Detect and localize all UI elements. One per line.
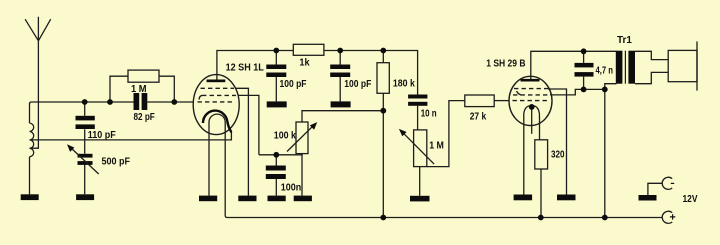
wire Tr1 secondary to speaker — [635, 51, 668, 83]
wire 1M wiper to 27k — [427, 101, 465, 167]
wire V2 filament right leg to 320 — [540, 117, 542, 218]
tube V1 12 SH 1L envelope — [193, 75, 239, 135]
resistor 320 — [535, 140, 548, 169]
ground bar V1 screen — [238, 196, 256, 202]
svg-text:320: 320 — [551, 149, 565, 161]
inductor L (tank coil) — [30, 104, 34, 195]
svg-text:180 k: 180 k — [393, 77, 415, 89]
svg-text:1 M: 1 M — [429, 140, 444, 152]
svg-text:27 k: 27 k — [470, 110, 487, 122]
ground bar 100n — [268, 196, 286, 202]
wire 100pF no.2 stubs — [339, 51, 341, 102]
wire coil tap to cathode V1 — [30, 132, 232, 140]
svg-text:1 SH 29 B: 1 SH 29 B — [486, 58, 526, 70]
wire V2 row1 to ground bar — [548, 89, 567, 195]
ground bar under 100 pF no.2 — [331, 101, 351, 107]
wire V2 row2 to screen node — [550, 89, 605, 95]
ground bar V1 heater — [199, 196, 217, 202]
svg-text:4,7 n: 4,7 n — [596, 65, 614, 77]
wire Tr1 primary bottom to +rail — [605, 84, 617, 218]
ground bar V2 filament — [514, 195, 533, 201]
ground bar under 100 pF no.1 — [267, 101, 287, 107]
tube V2 filament — [524, 106, 540, 118]
wire V1 anode riser and top rail — [217, 51, 418, 95]
svg-text:82 pF: 82 pF — [134, 111, 156, 123]
svg-text:100 pF: 100 pF — [280, 78, 307, 90]
wire 110pF column — [84, 102, 86, 194]
ground bar 1M pot — [410, 196, 430, 202]
ground bar 500 pF — [76, 194, 94, 200]
ground bar 100k pot — [294, 196, 312, 202]
tube V1 cathode — [203, 111, 231, 133]
wire 1M pot bottom to ground — [419, 167, 421, 196]
tube V1 heater — [209, 114, 225, 122]
wire antenna drop to coil tap — [30, 41, 39, 148]
svg-text:12V: 12V — [683, 193, 698, 205]
tube V2 1 SH 29 B envelope — [509, 76, 552, 125]
svg-text:500 pF: 500 pF — [102, 155, 131, 167]
resistor 180 k — [377, 63, 389, 94]
wire 10n to 1M pot — [417, 106, 419, 130]
resistor 27 k — [465, 95, 494, 107]
wire V1 screen to ground bar — [236, 88, 249, 195]
label plus — [670, 214, 675, 219]
capacitor 100 pF no.1 — [266, 65, 286, 78]
transformer Tr1 — [616, 51, 635, 84]
capacitor 4,7 n — [575, 63, 594, 77]
socket minus — [662, 177, 672, 189]
wire 100k pot top to 180k junction — [302, 111, 383, 122]
wire 100pF no.1 stubs — [275, 51, 277, 102]
resistor 1k — [293, 44, 324, 55]
svg-text:100 pF: 100 pF — [344, 78, 371, 90]
svg-text:100n: 100n — [281, 182, 301, 194]
ground bar 12V minus — [639, 195, 657, 201]
capacitor 110 pF — [76, 116, 95, 129]
capacitor 500 pF (variable) — [67, 144, 99, 174]
svg-text:Tr1: Tr1 — [617, 34, 632, 46]
svg-text:1 M: 1 M — [131, 83, 147, 95]
loudspeaker — [668, 41, 697, 90]
capacitor 100n — [266, 166, 286, 180]
wire V1 heater right leg + bottom rail — [225, 122, 662, 218]
capacitor 100 pF no.2 — [330, 65, 350, 78]
wire grid line (coil top to tube V1 grid) — [30, 102, 194, 104]
wire 180k column — [382, 51, 384, 218]
capacitor 82 pF — [134, 93, 148, 110]
wire V2 filament left leg — [523, 117, 525, 195]
wire V2 filament centre stub — [531, 107, 533, 134]
wire 27k to V2 grid — [494, 100, 509, 102]
wire 4,7n stubs — [583, 51, 585, 89]
wire 1M grid-leak stubs — [110, 76, 174, 102]
svg-text:100 k: 100 k — [274, 130, 296, 142]
ground bar V2 row1 — [557, 195, 576, 201]
svg-text:12 SH 1L: 12 SH 1L — [226, 61, 265, 73]
potentiometer 100 k — [287, 122, 317, 154]
wire 100n node line — [259, 154, 302, 155]
capacitor 10 n — [408, 95, 427, 106]
resistor 1 M grid leak — [128, 70, 159, 82]
svg-text:1k: 1k — [299, 57, 309, 69]
ground bar coil — [21, 194, 39, 200]
tube V2 anode — [521, 79, 540, 82]
potentiometer 1 M (volume) — [399, 129, 434, 167]
tube V1 grid rows (dashed) — [198, 88, 237, 102]
wire 100n stubs — [275, 155, 277, 196]
wire V1 heater left leg — [208, 122, 210, 196]
label minus — [671, 182, 674, 184]
socket plus — [662, 211, 672, 223]
wire V1 g3 to 100n node — [238, 95, 259, 154]
svg-text:110 pF: 110 pF — [88, 129, 116, 141]
wire V2 anode riser to Tr1 primary top — [531, 51, 617, 80]
svg-text:10 n: 10 n — [421, 108, 437, 120]
tube V2 grid rows (dashed) — [513, 89, 550, 101]
antenna — [25, 17, 51, 41]
wire 100k pot bottom to ground — [301, 154, 303, 196]
wire minus terminal to ground — [648, 183, 663, 195]
tube V1 anode — [207, 80, 226, 83]
